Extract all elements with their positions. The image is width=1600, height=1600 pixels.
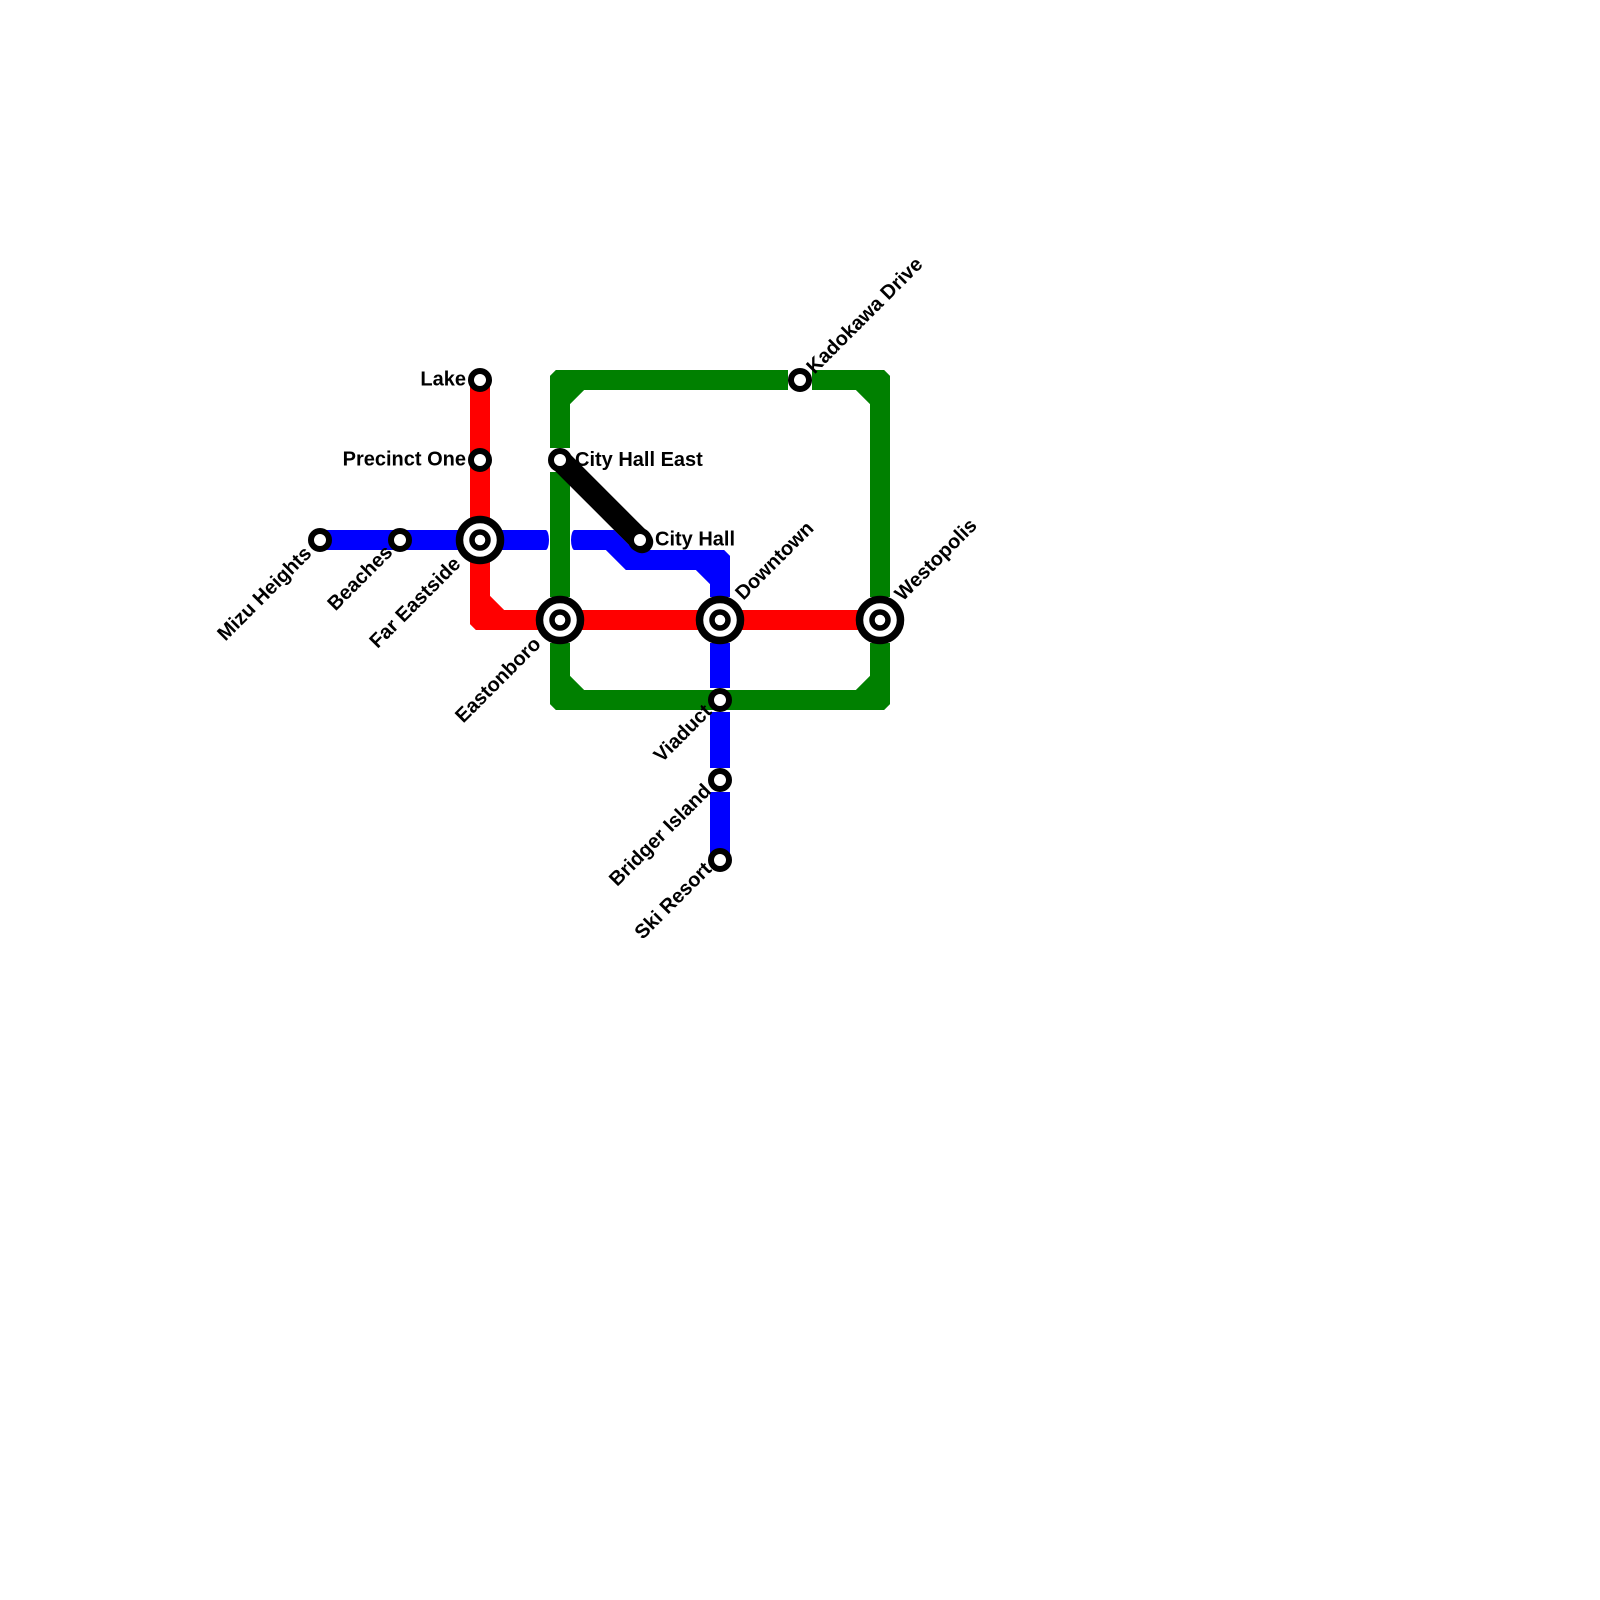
station Viaduct (711, 691, 729, 709)
green loop: top band right + top-right corner + right band upper (812, 370, 890, 597)
black connector City Hall East to City Hall (561, 461, 643, 543)
interchange Far Eastside (460, 520, 501, 561)
green loop: top-left corner + top band + left band upper (550, 370, 788, 448)
interchange Downtown (700, 600, 741, 641)
interchange Westopolis (860, 600, 901, 641)
green loop: left band middle (550, 472, 570, 597)
station Mizu Heights (311, 531, 329, 549)
svg-text:City Hall: City Hall (655, 529, 735, 551)
interchange Eastonboro (540, 600, 581, 641)
blue line: segment Viaduct to Bridger Island (710, 712, 730, 768)
station Kadokawa Drive (791, 371, 809, 389)
svg-text:Precinct One: Precinct One (343, 449, 466, 471)
green loop: left lower + bottom band + bottom corners + right lower (550, 643, 890, 710)
station Ski Resort (711, 851, 729, 869)
blue line: segment Downtown to Viaduct (710, 643, 730, 688)
station Beaches (391, 531, 409, 549)
station City Hall East (551, 451, 569, 469)
red line: Lake down, corner, right to Westopolis (470, 380, 880, 630)
station Lake (471, 371, 489, 389)
station Precinct One (471, 451, 489, 469)
blue line: segment crossing-jog-corner to Downtown (571, 530, 730, 597)
svg-text:City Hall East: City Hall East (575, 449, 703, 471)
station Bridger Island (711, 771, 729, 789)
station City Hall (631, 531, 649, 549)
svg-text:Lake: Lake (420, 369, 466, 391)
blue line: segment Bridger Island to Ski Resort (710, 792, 730, 860)
blue line: segment Mizu Heights to green crossing (320, 530, 549, 550)
